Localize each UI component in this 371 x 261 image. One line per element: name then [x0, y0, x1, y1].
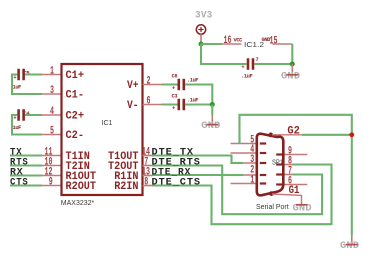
svg-text:DTE_CTS: DTE_CTS — [152, 177, 202, 188]
svg-text:1uF: 1uF — [13, 125, 22, 131]
connector SP1 top edge and G2 bump — [268, 133, 273, 138]
svg-text:1uF: 1uF — [13, 85, 22, 91]
wire DTE_RX overlay at pin 2 — [229, 174, 243, 176]
pin 12 — [42, 166, 62, 178]
net TX wire — [10, 154, 42, 156]
connector SP1 DB9 pin 7 — [283, 165, 292, 177]
pin 14 T1OUT — [142, 146, 153, 158]
svg-text:C3: C3 — [172, 94, 178, 100]
net DTE_CTS wire — [152, 165, 332, 225]
junction A — [210, 102, 215, 107]
pin 3 — [42, 85, 62, 97]
junction B — [199, 42, 204, 47]
wire C6 to gnd rail — [185, 85, 212, 105]
connector SP1 DB9 pin 4 — [231, 144, 257, 156]
svg-text:3V3: 3V3 — [195, 11, 213, 22]
pin 5 — [42, 125, 62, 137]
capacitor C5 — [13, 69, 30, 91]
capacitor C6 — [172, 74, 199, 92]
pin 9 — [42, 176, 62, 188]
connector SP1 inner pads left — [260, 144, 266, 184]
svg-text:15: 15 — [270, 36, 278, 48]
connector SP1 DB9 pin 1 — [231, 174, 257, 186]
svg-text:C1-: C1- — [66, 90, 85, 102]
svg-text:MAX3232*: MAX3232* — [61, 200, 95, 207]
svg-text:GND: GND — [201, 121, 220, 132]
wire C5 right to pin 1 — [25, 73, 42, 75]
pin 4 — [42, 106, 62, 118]
connector SP1 DB9 pin 9 — [283, 145, 307, 157]
svg-text:R2OUT: R2OUT — [66, 181, 97, 193]
connector SP1 DB9 pin 6 — [283, 175, 307, 187]
svg-text:9: 9 — [49, 176, 53, 188]
pin 8 R2IN — [143, 176, 153, 188]
svg-text:+: + — [13, 75, 16, 81]
svg-text:C6: C6 — [172, 74, 178, 80]
net RTS wire — [10, 164, 42, 166]
svg-text:C1+: C1+ — [66, 70, 85, 82]
svg-text:SP1: SP1 — [272, 160, 283, 167]
wire G2 pin to vertical — [302, 134, 352, 136]
net DTE_TX wire — [152, 156, 243, 164]
svg-text:GND: GND — [340, 241, 359, 252]
svg-text:VCC: VCC — [234, 38, 244, 44]
net CTS wire — [10, 184, 42, 186]
svg-text:G2: G2 — [287, 125, 299, 137]
svg-text:IC1: IC1 — [102, 120, 113, 127]
pin 15 GND — [262, 36, 293, 48]
ground 4 — [340, 236, 359, 252]
op-amp U1 IC1 MAX3232 body — [62, 64, 143, 195]
wire G2 loop overlay at pin 5 — [238, 138, 240, 144]
svg-text:+: + — [241, 65, 244, 71]
connector SP1 DB9 pin 3 — [231, 154, 257, 166]
pin 10 — [42, 156, 62, 168]
pin 13 R1IN — [142, 166, 153, 178]
capacitor C7 — [241, 57, 259, 80]
junction D red — [349, 132, 354, 137]
svg-text:+: + — [172, 85, 175, 91]
svg-text:.1uF: .1uF — [241, 74, 253, 80]
pin 1 — [42, 65, 62, 77]
svg-text:3: 3 — [50, 85, 54, 97]
pin G1 — [272, 185, 302, 205]
connector SP1 DB9 pin 5 — [231, 134, 257, 146]
svg-text:+: + — [172, 105, 175, 111]
svg-text:.1uF: .1uF — [187, 78, 199, 84]
svg-text:8: 8 — [144, 176, 148, 188]
wire junction to pin16 — [201, 43, 222, 45]
wire pin2 to C6 — [162, 83, 179, 85]
connector SP1 inner pads right — [276, 155, 282, 185]
wire C3 to junction — [185, 103, 212, 105]
connector SP1 DB9 pin 2 — [231, 164, 257, 176]
pin 11 — [42, 146, 62, 158]
wire 3V3 down to C7 rail — [201, 44, 247, 64]
wire pin15 down — [291, 44, 293, 64]
net RX wire — [10, 174, 42, 176]
IC1 pin names right — [108, 80, 139, 193]
svg-text:4: 4 — [50, 106, 54, 118]
connector SP1 DB9 pin 8 — [283, 155, 292, 167]
svg-text:5: 5 — [50, 125, 54, 137]
wire pin6 to C3 — [162, 103, 179, 105]
pin 2 V+ — [143, 75, 163, 87]
svg-text:7: 7 — [256, 57, 259, 63]
wire C7 to junction C — [255, 63, 293, 65]
ground 2 — [281, 64, 300, 82]
IC1 pin names left — [66, 70, 97, 193]
svg-text:Serial Port: Serial Port — [256, 204, 289, 211]
svg-text:V+: V+ — [127, 80, 139, 92]
svg-text:C2+: C2+ — [66, 111, 85, 123]
svg-text:6: 6 — [147, 95, 151, 107]
ground 3 — [293, 203, 312, 214]
svg-text:C2-: C2- — [66, 130, 85, 142]
wire C4 left loop to pin 5 — [12, 115, 42, 135]
svg-text:CTS: CTS — [10, 177, 29, 188]
pin 7 T2OUT — [143, 156, 153, 168]
svg-text:R2IN: R2IN — [114, 181, 138, 193]
wire C5 left loop to pin 3 — [12, 75, 42, 95]
net DTE_RTS wire — [152, 166, 322, 215]
junction C — [290, 62, 295, 67]
wire junction down — [211, 105, 213, 116]
capacitor C4 — [13, 109, 31, 131]
pin 6 V- — [143, 95, 163, 107]
connector SP1 DB9 shell — [257, 134, 284, 196]
svg-text:16: 16 — [224, 35, 232, 47]
supply 3V3 — [195, 11, 213, 44]
pin 16 VCC — [222, 35, 243, 47]
wire G2 top loop — [240, 115, 352, 236]
svg-text:G1: G1 — [289, 185, 300, 197]
svg-text:V-: V- — [127, 100, 139, 112]
wire C4 right to pin 4 — [25, 114, 42, 116]
svg-text:1: 1 — [50, 65, 54, 77]
svg-text:.1uF: .1uF — [187, 97, 199, 103]
ground 1 — [201, 115, 220, 132]
capacitor C3 — [172, 94, 199, 112]
wire DTE_TX overlay at pin 3 — [232, 162, 244, 164]
svg-text:GND: GND — [281, 71, 300, 82]
pin G2 — [272, 125, 302, 137]
svg-text:1: 1 — [250, 174, 254, 186]
connector SP1 bottom G1 bump — [269, 191, 274, 196]
svg-text:2: 2 — [147, 75, 151, 87]
svg-text:IC1.2: IC1.2 — [244, 42, 264, 49]
net DTE_RX wire — [152, 174, 243, 176]
svg-text:+: + — [13, 115, 16, 121]
